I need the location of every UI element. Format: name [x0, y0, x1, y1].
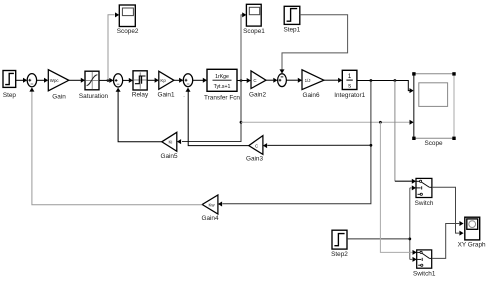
scope Scope1 — [243, 4, 265, 35]
svg-text:Gain1: Gain1 — [157, 91, 174, 98]
svg-text:Gain3: Gain3 — [246, 155, 263, 162]
step source Step2 — [331, 230, 348, 258]
gain Gain4 — [201, 195, 218, 222]
svg-text:Gain5: Gain5 — [160, 153, 177, 160]
node junction to scope second input — [240, 121, 243, 124]
svg-text:Relay: Relay — [132, 92, 149, 99]
wire Step2 to control line — [347, 238, 410, 240]
svg-text:C: C — [255, 143, 258, 148]
gain Gain5 — [160, 132, 177, 160]
svg-text:Integrator1: Integrator1 — [334, 92, 365, 99]
wire Saturation to Sum2 — [99, 78, 114, 83]
gain Gain1 — [157, 71, 174, 98]
wire Step to Sum1 — [16, 78, 28, 83]
wire Gain1 to Sum3 — [174, 78, 183, 83]
wire Sum2 to Relay — [123, 78, 133, 83]
xy graph block — [458, 217, 486, 248]
svg-text:Kw: Kw — [209, 202, 216, 207]
relay block — [132, 71, 149, 99]
svg-text:Gain6: Gain6 — [302, 92, 319, 99]
sum S4 — [278, 74, 287, 87]
sum S2 — [114, 74, 123, 87]
wire to Scope2 — [108, 12, 119, 80]
node junction to Switch1 branch — [379, 121, 382, 124]
node junction Gain3 tap — [370, 144, 373, 147]
wire Step1 to Sum4 top — [280, 15, 348, 74]
wire down from TF junction to Gain5 input — [177, 81, 241, 145]
svg-text:Kp: Kp — [160, 78, 166, 83]
svg-text:C: C — [253, 78, 256, 83]
svg-text:Step1: Step1 — [283, 27, 300, 34]
integrator block Integrator1 — [334, 70, 365, 99]
sum S3 — [183, 74, 193, 100]
gain Gain2 — [249, 71, 266, 99]
svg-text:Step: Step — [3, 92, 17, 99]
wire Gain6 to Integrator1 — [324, 78, 342, 83]
step source Step — [3, 71, 17, 99]
node junction to Switch — [394, 79, 397, 82]
svg-text:Tyt.s+1: Tyt.s+1 — [214, 84, 231, 90]
svg-text:Gain: Gain — [52, 94, 66, 101]
scope Scope (selected) — [412, 72, 455, 147]
wire Relay to Gain1 — [147, 78, 159, 83]
svg-text:Gain4: Gain4 — [201, 215, 218, 222]
wire gray branch to Switch1 top input — [380, 122, 416, 255]
gain Gain6 — [302, 70, 324, 99]
node junction feedback A — [370, 79, 373, 82]
wire Sum4 to Gain6 — [286, 78, 302, 83]
wire junction B to Switch top input — [395, 81, 416, 184]
svg-text:Saturation: Saturation — [79, 93, 109, 100]
wire Sum3 to Transfer Fcn — [193, 78, 207, 83]
switch block Switch1 — [413, 250, 436, 277]
svg-text:Scope2: Scope2 — [117, 28, 139, 35]
node junction Step2 join — [408, 238, 411, 241]
svg-text:s: s — [348, 84, 351, 90]
wire Gain4 output to Sum1 bottom — [29, 87, 202, 204]
step source Step1 — [283, 6, 300, 33]
scope Scope2 — [117, 5, 139, 35]
svg-text:Scope1: Scope1 — [243, 28, 265, 35]
svg-text:Switch: Switch — [415, 200, 434, 207]
wire Switch1 output to XY Graph upper input — [432, 221, 464, 258]
svg-text:Wpc: Wpc — [50, 78, 60, 83]
wire feedback A down to Gain3 and Gain4 — [218, 81, 371, 207]
transfer fcn block — [204, 69, 240, 101]
wire Switch output to XY Graph lower input — [432, 187, 464, 235]
wire Gain to Saturation — [69, 78, 85, 83]
wire TransferFcn to Gain2 — [237, 78, 251, 83]
node junction to Scope2 — [107, 79, 110, 82]
gain Gain (Wpc) — [48, 70, 69, 101]
wire Sum1 to Gain — [37, 78, 49, 83]
svg-text:1rKge: 1rKge — [215, 74, 229, 80]
wire gray to Scope lower input — [241, 120, 414, 125]
gain Gain3 — [246, 136, 263, 163]
svg-text:1/J: 1/J — [305, 78, 311, 83]
sum S1 — [27, 74, 36, 87]
svg-text:Switch1: Switch1 — [413, 270, 436, 277]
wire Integrator1 to Scope — [357, 81, 414, 94]
wire Gain5 output to Sum2 bottom — [116, 88, 162, 142]
wire Gain2 to Sum4 — [266, 78, 278, 83]
svg-text:Gain2: Gain2 — [249, 92, 266, 99]
svg-text:Ki: Ki — [169, 140, 173, 145]
wire up to Scope1 — [241, 12, 246, 80]
svg-text:XY Graph: XY Graph — [458, 242, 486, 249]
svg-text:Step2: Step2 — [331, 251, 348, 258]
wire Gain3 output to Sum3 bottom — [186, 88, 249, 146]
saturation block — [79, 71, 109, 100]
wire vertical control line x=409.8 — [410, 185, 417, 262]
svg-text:Transfer Fcn: Transfer Fcn — [204, 95, 240, 102]
node junction TF output — [240, 79, 243, 82]
wire to Gain3 input — [263, 143, 371, 148]
svg-text:Scope: Scope — [424, 140, 443, 147]
switch block Switch — [415, 178, 434, 207]
